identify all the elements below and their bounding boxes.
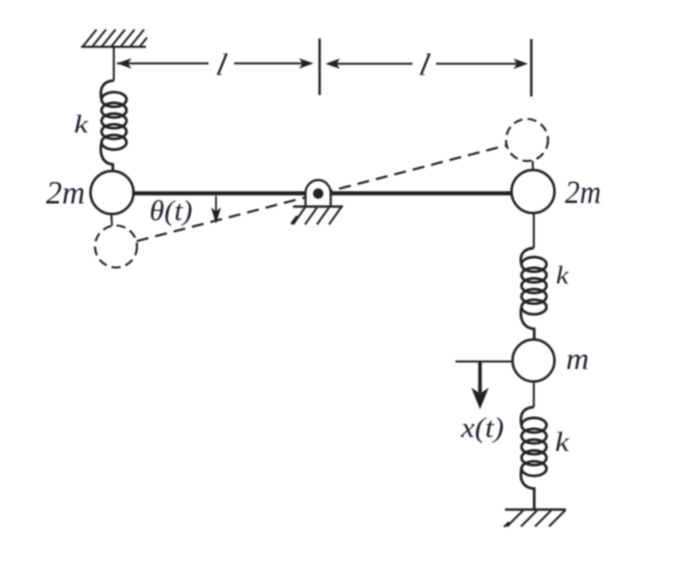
dimension line left segment bbox=[117, 62, 311, 64]
ceiling hatching bbox=[83, 30, 147, 47]
mass 2m left bbox=[91, 171, 134, 214]
dashed circle right (displaced 2m) bbox=[506, 119, 548, 161]
svg-text:θ(t): θ(t) bbox=[150, 196, 193, 227]
svg-text:l: l bbox=[213, 47, 230, 82]
spring k1 top-left bbox=[101, 81, 127, 172]
x(t) reference line bbox=[456, 361, 513, 363]
dimension line right segment bbox=[328, 63, 525, 65]
wire 2m-right to spring k2 bbox=[533, 213, 535, 248]
x(t) arrow shaft bbox=[478, 362, 482, 394]
label l right bbox=[416, 47, 433, 82]
theta arrowhead bbox=[211, 208, 221, 224]
svg-text:x(t): x(t) bbox=[460, 412, 504, 444]
mass m bbox=[513, 340, 555, 382]
wire ceiling to spring k1 bbox=[113, 47, 115, 81]
wire m to spring k3 bbox=[533, 382, 535, 408]
ground hatching bbox=[504, 511, 565, 528]
dashed circle left (displaced 2m) bbox=[95, 226, 137, 268]
bar right segment bbox=[331, 191, 512, 195]
dimension arrowhead right bbox=[514, 59, 529, 69]
svg-text:l: l bbox=[416, 47, 433, 82]
pivot dot bbox=[313, 188, 323, 198]
link right dashed circle to 2m right bbox=[532, 161, 534, 171]
ground support line bbox=[505, 508, 566, 510]
pivot base line bbox=[293, 205, 343, 207]
dimension arrowhead left bbox=[117, 58, 132, 68]
svg-text:2m: 2m bbox=[46, 176, 85, 212]
link 2m-left to dashed circle bbox=[110, 214, 113, 226]
svg-text:m: m bbox=[566, 341, 589, 376]
spring k2 right middle bbox=[521, 248, 547, 340]
dimension arrowhead right of left span bbox=[299, 58, 314, 68]
svg-text:k: k bbox=[74, 112, 89, 139]
svg-text:k: k bbox=[556, 263, 570, 290]
center tick bbox=[318, 39, 320, 96]
label l left bbox=[213, 47, 230, 82]
dimension arrowhead left of right span bbox=[326, 59, 341, 69]
theta arrow shaft bbox=[215, 196, 217, 211]
pivot dome bbox=[306, 180, 331, 207]
right tick bbox=[530, 39, 532, 97]
pivot base hatching bbox=[291, 208, 341, 225]
dashed displaced bar line bbox=[137, 145, 507, 241]
ceiling support line bbox=[81, 46, 146, 48]
svg-text:k: k bbox=[555, 427, 570, 457]
spring k3 bottom bbox=[521, 407, 547, 510]
svg-text:2m: 2m bbox=[565, 175, 601, 211]
x(t) arrowhead bbox=[471, 388, 489, 410]
mass 2m right bbox=[512, 170, 555, 213]
bar left segment bbox=[134, 191, 306, 195]
